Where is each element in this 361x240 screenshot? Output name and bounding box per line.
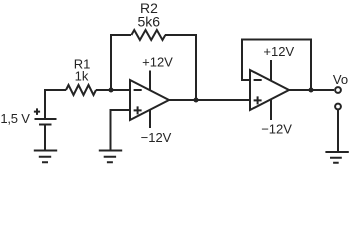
U2 inverting input marker — [254, 79, 262, 81]
svg-text:Vo: Vo — [333, 72, 348, 87]
wire: R1 to op-amp U1 inverting input — [96, 89, 130, 91]
U1 non-inverting input marker — [134, 106, 142, 114]
U2 -12V supply pin — [270, 99, 272, 120]
wire: battery negative to ground — [44, 125, 46, 151]
node B: U1 output junction — [194, 98, 199, 103]
svg-text:+12V: +12V — [263, 44, 294, 59]
U2 non-inverting input marker — [254, 96, 262, 104]
svg-text:−12V: −12V — [261, 122, 292, 137]
battery V1 plates — [35, 119, 57, 125]
ground (battery) — [34, 151, 57, 163]
node A: R1 / R2 / U1 inverting junction — [109, 88, 114, 93]
wire: R2 right lead down to U1 output node — [165, 35, 196, 100]
op-amp U1 triangle — [130, 80, 169, 120]
wire: U1 non-inverting input to ground — [111, 110, 131, 151]
ground (U1 non-inverting input) — [99, 151, 122, 163]
svg-text:1k: 1k — [75, 69, 89, 84]
ground (output return) — [325, 152, 348, 163]
svg-text:1,5 V: 1,5 V — [0, 111, 30, 126]
terminal return (open circle) — [335, 104, 341, 110]
terminal Vo (open circle) — [335, 87, 341, 93]
wire: U2 output to Vo terminal — [289, 89, 334, 91]
node C: U2 output junction — [309, 88, 314, 93]
wire: battery positive up to main line — [45, 90, 66, 119]
battery plus sign — [34, 108, 40, 115]
wire: U2 feedback loop output to inverting input — [242, 40, 311, 91]
wire: lower terminal to ground — [337, 110, 339, 152]
svg-text:+12V: +12V — [142, 55, 173, 70]
U1 inverting input marker — [134, 89, 142, 91]
resistor R2 — [131, 30, 165, 40]
svg-text:−12V: −12V — [141, 130, 172, 145]
U1 -12V supply pin — [149, 110, 151, 128]
svg-text:5k6: 5k6 — [138, 14, 161, 30]
U1 +12V supply pin — [149, 71, 151, 91]
U2 +12V supply pin — [270, 60, 272, 81]
op-amp U2 triangle — [250, 70, 289, 110]
wire: U1 output to U2 non-inverting input — [169, 99, 250, 101]
resistor R1 — [66, 85, 96, 95]
wire: vertical from node A up to R2 — [111, 35, 131, 90]
